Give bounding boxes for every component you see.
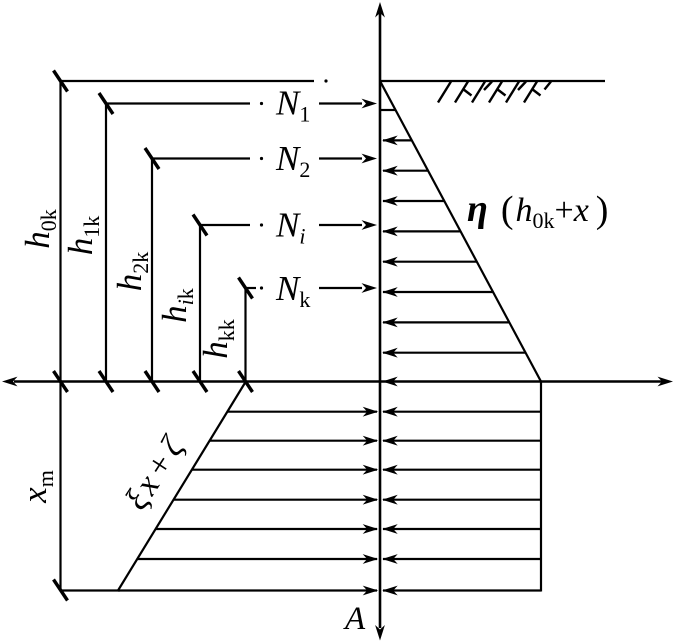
lower left load arrow y=470 [192,465,378,475]
label h1k [61,216,104,256]
upper load arrow y=353 [382,348,525,358]
lower left load arrow y=500 [174,495,379,505]
horizontal axis [2,377,673,387]
lower right load arrow y=470 [382,465,541,475]
upper load triangle hypotenuse [380,81,541,382]
dimension line hik [199,225,201,382]
upper load arrow y=140 [382,136,412,146]
upper triangle top short line [380,109,396,111]
ground level extension line with dot [61,79,328,82]
bottom edge with opposing arrows [118,586,541,596]
lower right load arrow y=441 [382,436,541,446]
ground surface line [380,80,605,82]
upper load arrow y=262 [382,257,477,267]
label hkk [196,319,239,359]
dimension line hkk [244,288,246,382]
lower right load arrow y=529 [382,524,541,534]
force arrow N2 [319,154,377,164]
label xi x + zeta (lower diagonal load) [118,428,194,517]
svg-text:A: A [343,601,366,637]
vertical axis (pile centerline) [375,2,385,641]
upper load arrow on axis [382,377,398,387]
upper load arrow y=292 [382,287,493,297]
label h2k [110,252,153,292]
tick marks [54,71,253,601]
dimension line h1k [105,104,107,382]
dimension line h2k [151,159,153,382]
lower left load arrow y=441 [210,436,379,446]
label h0k [18,209,61,249]
label hik [155,288,198,323]
lower left load arrow y=412 [227,407,378,417]
ground hatching [438,82,551,103]
upper load arrow y=171 [382,166,428,176]
lower right load arrow y=559 [382,554,541,564]
bottom connector to dimension line [61,589,121,591]
label xm [15,470,58,504]
extension line for Nk with dot [246,286,264,289]
lower load right boundary [540,382,542,592]
upper load arrow y=201 [382,196,444,206]
lower left load arrow y=529 [156,524,379,534]
lower left load arrow y=559 [137,554,378,564]
lower right load arrow y=412 [382,407,541,417]
force arrow Nk [319,283,377,293]
force arrow Ni [319,220,377,230]
lower right load arrow y=500 [382,495,541,505]
force arrow N1 [319,99,377,109]
upper load arrow y=322 [382,318,509,328]
upper load arrow y=231 [382,227,460,237]
lower load diagonal [118,382,246,591]
extension line for Ni with dot [200,223,263,226]
extension line for N2 with dot [152,157,263,160]
dimension line h0k/xm [59,81,61,590]
extension line for N1 with dot [106,102,263,105]
